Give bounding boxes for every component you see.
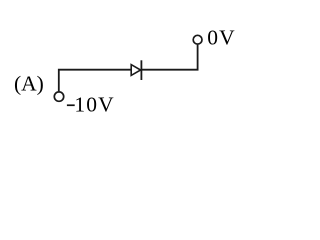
svg-text:10V: 10V <box>74 92 114 116</box>
svg-text:(A): (A) <box>14 72 44 96</box>
svg-text:0V: 0V <box>207 25 236 49</box>
